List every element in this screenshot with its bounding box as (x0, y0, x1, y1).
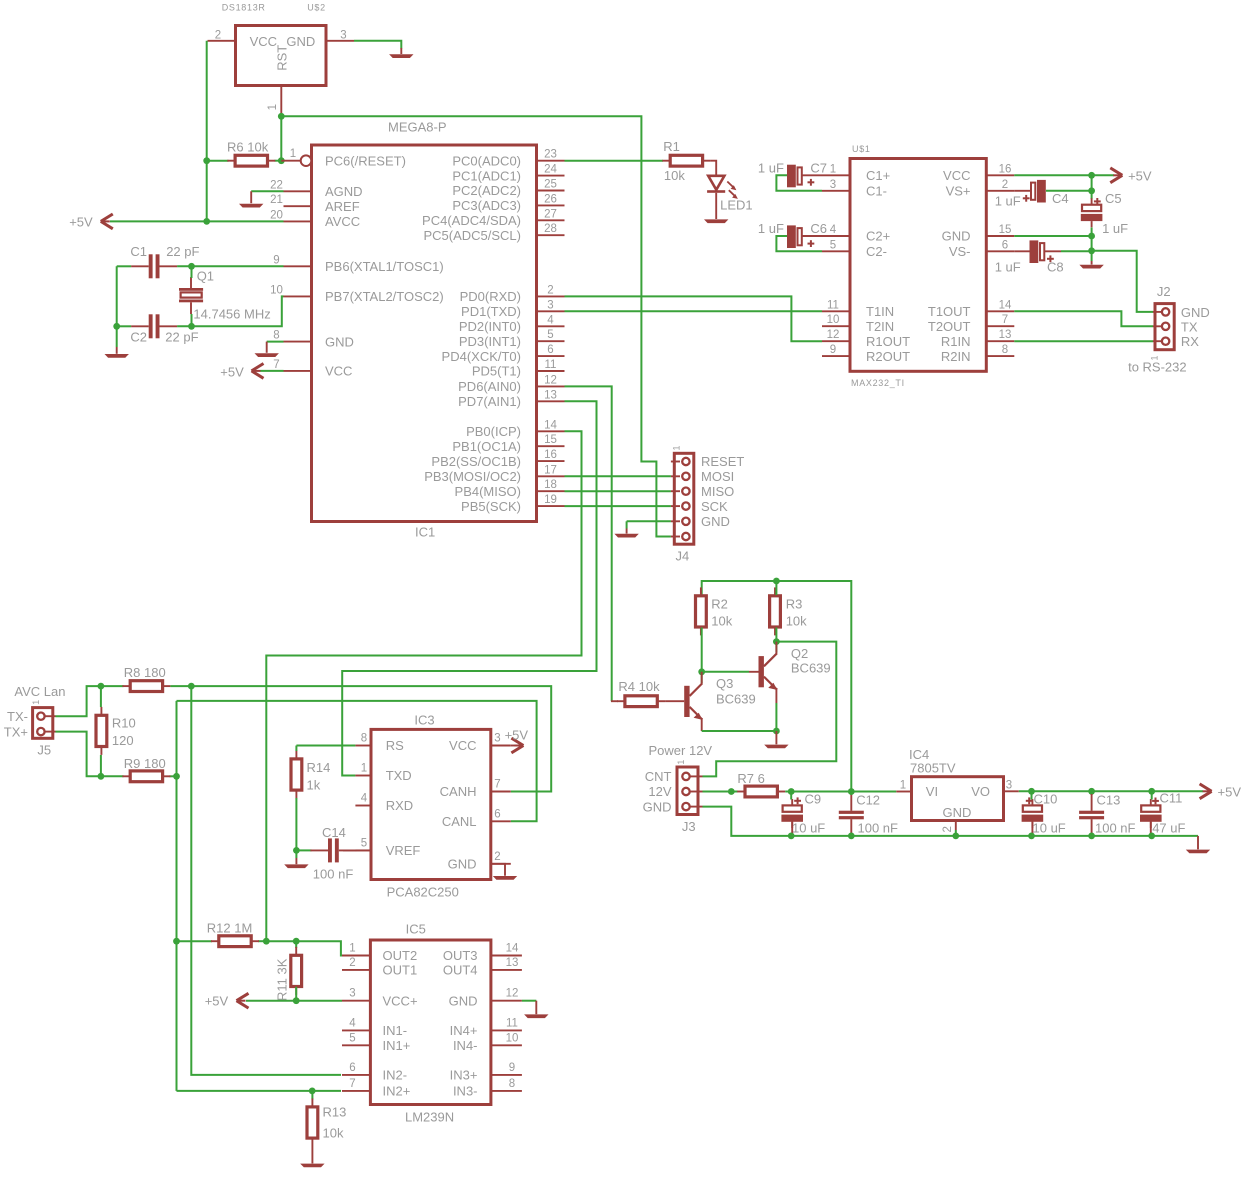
pin 3 of U$2 (326, 40, 354, 42)
svg-text:4: 4 (830, 224, 837, 236)
wire R12 left (177, 940, 213, 942)
wire R9 right (170, 775, 177, 777)
svg-text:GND: GND (701, 514, 730, 529)
IC1 right pin 2 PD0(RXD) (537, 295, 565, 297)
svg-text:R14: R14 (307, 760, 331, 775)
J4 pin 6 (671, 536, 680, 538)
wire IC5 GND pin12 to ground (522, 1000, 536, 1002)
node C13 bottom (1088, 833, 1095, 840)
svg-text:PD1(TXD): PD1(TXD) (461, 304, 521, 319)
IC5 left pin 5 IN1+ (342, 1044, 370, 1046)
svg-text:11: 11 (827, 299, 839, 311)
svg-text:1 uF: 1 uF (1102, 221, 1128, 236)
ground at IC3 (493, 876, 517, 880)
svg-text:15: 15 (999, 224, 1012, 236)
svg-text:24: 24 (544, 164, 557, 176)
svg-text:VCC: VCC (325, 364, 352, 379)
svg-text:2: 2 (547, 284, 553, 296)
IC5 right pin 12 GND (491, 1000, 522, 1002)
svg-text:RST: RST (275, 45, 290, 71)
+5V supply arrow (IC1 VCC) (252, 364, 264, 379)
svg-text:10: 10 (506, 1032, 519, 1044)
IC1 right pin 27 PC4(ADC4/SDA) (537, 219, 565, 221)
svg-text:7: 7 (1002, 314, 1008, 326)
ground at IC5 (524, 1014, 548, 1018)
svg-text:PB4(MISO): PB4(MISO) (455, 484, 521, 499)
U$1 right pin 2 VS+ (986, 190, 1014, 192)
svg-text:VCC: VCC (250, 34, 277, 49)
svg-text:2: 2 (942, 826, 954, 832)
wire C12 leads (850, 792, 852, 796)
svg-text:PC2(ADC2): PC2(ADC2) (452, 183, 521, 198)
svg-text:4: 4 (547, 314, 554, 326)
svg-text:MOSI: MOSI (701, 469, 734, 484)
svg-text:VCC: VCC (449, 738, 476, 753)
svg-text:13: 13 (544, 389, 557, 401)
svg-text:T1IN: T1IN (866, 304, 894, 319)
svg-text:AGND: AGND (325, 184, 363, 199)
svg-text:18: 18 (544, 479, 557, 491)
svg-text:16: 16 (999, 163, 1012, 175)
U$1 left pin 3 C1- (822, 190, 850, 192)
IC1 left pin 21 AREF (284, 205, 312, 207)
J2 pin RX (1153, 340, 1162, 342)
RS-232 driver U$1 MAX232_TI (850, 159, 986, 372)
svg-text:10k: 10k (786, 614, 807, 629)
svg-text:12: 12 (827, 329, 840, 341)
svg-text:+5V: +5V (1218, 784, 1242, 799)
node C11 top (1148, 788, 1155, 795)
resistor R4 (617, 696, 665, 707)
IC1 right pin 17 PB3(MOSI/OC2) (537, 475, 565, 477)
wire PC0 to R1 (565, 160, 664, 162)
svg-text:OUT1: OUT1 (383, 963, 418, 978)
svg-text:IN2+: IN2+ (383, 1084, 411, 1099)
svg-text:VO: VO (971, 784, 990, 799)
svg-text:R10: R10 (112, 716, 136, 731)
node C13 top (1088, 788, 1095, 795)
resistor R14 (291, 751, 302, 799)
IC1 right pin 3 PD1(TXD) (537, 310, 565, 312)
voltage regulator IC4 7805TV (912, 777, 1004, 821)
svg-text:C4: C4 (1052, 191, 1069, 206)
svg-text:1 uF: 1 uF (995, 260, 1021, 275)
svg-text:R1: R1 (663, 139, 680, 154)
svg-text:20: 20 (270, 209, 283, 221)
svg-text:25: 25 (544, 179, 557, 191)
ground at crystal caps (105, 354, 129, 358)
svg-text:1: 1 (672, 445, 682, 450)
wire R11 bottom to +5V / VCC+ (295, 987, 297, 1001)
node C12 bottom (848, 833, 855, 840)
wire C13 top (1091, 791, 1093, 795)
IC3 right pin 6 CANL (491, 820, 511, 822)
svg-text:1: 1 (676, 760, 686, 765)
svg-text:+5V: +5V (505, 727, 529, 742)
resistor R1 (662, 155, 710, 166)
wire R14 top lead (295, 746, 297, 752)
node TX- R8 R10 (98, 683, 105, 690)
svg-text:R2: R2 (711, 596, 728, 611)
svg-text:5: 5 (547, 329, 553, 341)
wire LED1 cathode to ground (715, 193, 717, 219)
svg-text:19: 19 (544, 494, 557, 506)
wire R10 top (100, 686, 102, 707)
wire T1OUT to J2 TX (1014, 311, 1153, 326)
svg-text:28: 28 (544, 223, 557, 235)
node C9 bottom (788, 833, 795, 840)
U$1 left pin 12 R1OUT (822, 340, 850, 342)
J4 pin MISO (671, 490, 680, 492)
svg-text:T1OUT: T1OUT (928, 304, 971, 319)
svg-text:C8: C8 (1047, 260, 1064, 275)
svg-text:AREF: AREF (325, 199, 360, 214)
wire IC3 GND pin to ground (491, 864, 505, 876)
svg-text:BC639: BC639 (791, 660, 831, 675)
J3 pin CNT (690, 775, 703, 777)
svg-text:2: 2 (1002, 179, 1008, 191)
svg-text:13: 13 (506, 957, 519, 969)
microcontroller IC1 MEGA8-P (312, 145, 537, 522)
svg-text:R8 180: R8 180 (124, 665, 166, 680)
wire C5 bottom to GND pin15 row (1091, 228, 1093, 237)
svg-text:PC0(ADC0): PC0(ADC0) (452, 153, 521, 168)
svg-text:CNT: CNT (645, 769, 672, 784)
svg-text:IC3: IC3 (414, 712, 434, 727)
wire CANL column down to R12 and IN2+ (176, 701, 178, 1091)
U$1 left pin 9 R2OUT (822, 355, 850, 357)
svg-text:R6 10k: R6 10k (227, 139, 269, 154)
svg-text:23: 23 (544, 149, 557, 161)
wire R1 to LED1 (710, 161, 716, 176)
svg-text:C5: C5 (1105, 191, 1122, 206)
wire R2 bottom to Q3 collector and Q2 base (701, 628, 703, 684)
svg-text:3: 3 (830, 179, 836, 191)
svg-text:14: 14 (999, 299, 1012, 311)
node R3 top (773, 578, 780, 585)
svg-text:14: 14 (544, 419, 557, 431)
capacitor C5 1uF (1081, 198, 1103, 227)
J3 pin 12V (690, 791, 703, 793)
svg-text:Q3: Q3 (716, 676, 733, 691)
IC1 left pin 22 AGND (284, 190, 312, 192)
capacitor C8 1uF (1030, 240, 1045, 263)
U$1 left pin 11 T1IN (822, 310, 850, 312)
wire crystal caps ground leg (116, 266, 118, 347)
svg-text:C13: C13 (1097, 792, 1121, 807)
ground at R13 (300, 1164, 324, 1168)
resistor R7 (737, 786, 785, 797)
wire 12V rail to R2 R3 tops (702, 581, 852, 792)
svg-text:RS: RS (386, 738, 404, 753)
svg-text:R1IN: R1IN (941, 334, 971, 349)
svg-text:LM239N: LM239N (405, 1110, 454, 1125)
capacitor C10 10uF (1022, 799, 1044, 828)
IC5 right pin 8 IN3- (491, 1090, 522, 1092)
svg-text:5: 5 (830, 239, 836, 251)
svg-text:2: 2 (215, 30, 221, 42)
svg-text:C11: C11 (1160, 790, 1183, 805)
svg-text:R3: R3 (786, 596, 803, 611)
resistor R11 (291, 947, 302, 995)
node R6 left junction (203, 157, 210, 164)
svg-text:1 uF: 1 uF (758, 160, 784, 175)
svg-text:3: 3 (1006, 780, 1012, 792)
svg-text:14.7456 MHz: 14.7456 MHz (193, 306, 270, 321)
svg-text:PC3(ADC3): PC3(ADC3) (452, 198, 521, 213)
IC3 left pin 1 TXD (355, 775, 371, 777)
node +5V MAX232 (1088, 172, 1095, 179)
svg-text:TX-: TX- (7, 709, 28, 724)
svg-text:T2IN: T2IN (866, 319, 894, 334)
crystal Q1 14.7456 MHz (179, 277, 203, 314)
pin 2 of U$2 (208, 40, 236, 42)
svg-text:6: 6 (349, 1062, 355, 1074)
node R12 left (173, 938, 180, 945)
svg-text:PB7(XTAL2/TOSC2): PB7(XTAL2/TOSC2) (325, 289, 444, 304)
svg-text:C10: C10 (1034, 791, 1058, 806)
node Q2 collector (773, 638, 780, 645)
IC5 right pin 10 IN4- (491, 1044, 522, 1046)
wire XTAL2 net (117, 325, 131, 327)
svg-text:GND: GND (448, 857, 477, 872)
svg-text:4: 4 (349, 1017, 356, 1029)
wire PB5 SCK to J4 (565, 505, 671, 507)
node C10 bottom (1028, 833, 1035, 840)
svg-text:U$2: U$2 (307, 3, 326, 13)
svg-text:PB2(SS/OC1B): PB2(SS/OC1B) (431, 454, 521, 469)
svg-text:OUT4: OUT4 (443, 963, 478, 978)
capacitor C1 22pF (131, 254, 177, 278)
capacitor C4 lead from VS+ (1014, 190, 1030, 192)
svg-text:VCC+: VCC+ (383, 993, 418, 1008)
svg-text:R4 10k: R4 10k (618, 679, 660, 694)
svg-text:6: 6 (547, 344, 553, 356)
IC4 pin 3 VO (1004, 790, 1019, 792)
svg-text:8: 8 (273, 330, 279, 342)
svg-text:IC5: IC5 (406, 921, 426, 936)
IC1 right pin 18 PB4(MISO) (537, 490, 565, 492)
svg-text:R2OUT: R2OUT (866, 349, 910, 364)
U$1 right pin 6 VS- (986, 250, 1014, 252)
+5V supply arrow (AVCC) (101, 214, 113, 229)
svg-text:MEGA8-P: MEGA8-P (388, 120, 447, 135)
connector J4 (674, 453, 694, 544)
IC1 right pin 19 PB5(SCK) (537, 505, 565, 507)
wire R13 bottom to ground (311, 1147, 313, 1164)
comparator IC5 LM239N (370, 940, 491, 1105)
node +5V AVCC junction (203, 218, 210, 225)
J4 pin SCK (671, 505, 680, 507)
svg-text:AVC Lan: AVC Lan (14, 684, 65, 699)
svg-text:C1+: C1+ (866, 168, 890, 183)
+5V supply arrow (MAX232) (1110, 168, 1122, 183)
wire PD7 to IC3 TXD (342, 401, 596, 775)
U$1 right pin 15 GND (986, 235, 1014, 237)
wire +5V to IC5 VCC+ (246, 1000, 342, 1002)
IC1 right pin 28 PC5(ADC5/SCL) (537, 234, 565, 236)
svg-text:6: 6 (1002, 239, 1008, 251)
IC5 right pin 13 OUT4 (491, 969, 522, 971)
wire R10 bottom (100, 755, 102, 776)
svg-text:9: 9 (830, 344, 836, 356)
capacitor C11 47uF (1140, 799, 1162, 828)
node C14 (293, 847, 300, 854)
wire GND pin15 (1014, 235, 1091, 237)
svg-text:PD4(XCK/T0): PD4(XCK/T0) (442, 349, 521, 364)
node R6 right / PC6 junction (278, 157, 285, 164)
node TX+ R9 R10 (98, 773, 105, 780)
svg-text:3: 3 (340, 30, 346, 42)
svg-text:MISO: MISO (701, 484, 734, 499)
svg-text:12: 12 (544, 374, 557, 386)
svg-text:120: 120 (112, 733, 134, 748)
svg-text:R12 1M: R12 1M (207, 920, 253, 935)
svg-text:100 nF: 100 nF (858, 820, 899, 835)
svg-text:PD5(T1): PD5(T1) (472, 364, 521, 379)
wire TX- to R8/R10 node (56, 686, 101, 716)
svg-text:14: 14 (506, 943, 519, 955)
svg-text:PD2(INT0): PD2(INT0) (459, 319, 521, 334)
svg-text:1: 1 (830, 163, 836, 175)
svg-text:IN1-: IN1- (383, 1023, 408, 1038)
wire rail end to ground (1197, 836, 1199, 849)
wire PB4 MISO to J4 (565, 490, 671, 492)
IC1 right pin 4 PD2(INT0) (537, 325, 565, 327)
svg-text:TX+: TX+ (4, 724, 28, 739)
wire Q2 base (702, 671, 749, 673)
capacitor C12 100nF (839, 794, 864, 836)
capacitor C4 1uF (1031, 180, 1046, 203)
svg-text:LED1: LED1 (720, 197, 753, 212)
wire emitters to ground (702, 730, 777, 732)
svg-text:R7 6: R7 6 (737, 771, 764, 786)
wire C11 leads (1151, 791, 1153, 799)
wire C8 to ground node (1044, 250, 1062, 252)
IC1 left pin 7 VCC (284, 370, 312, 372)
node GND pin15 (1088, 233, 1095, 240)
IC1 right pin 6 PD4(XCK/T0) (537, 355, 565, 357)
svg-text:Power 12V: Power 12V (649, 743, 713, 758)
svg-text:GND: GND (1181, 305, 1210, 320)
IC5 left pin 2 OUT1 (342, 969, 370, 971)
IC1 left pin 8 GND (284, 341, 312, 343)
IC4 pin 2 GND (955, 821, 957, 831)
svg-text:PC4(ADC4/SDA): PC4(ADC4/SDA) (422, 213, 521, 228)
svg-text:MAX232_TI: MAX232_TI (851, 378, 905, 388)
svg-text:5: 5 (361, 837, 367, 849)
svg-text:BC639: BC639 (716, 691, 756, 706)
IC1 right pin 24 PC1(ADC1) (537, 175, 565, 177)
IC1 left pin 9 PB6(XTAL1/TOSC1) (284, 265, 312, 267)
svg-text:CANH: CANH (440, 784, 477, 799)
resistor R6 (227, 155, 275, 166)
IC3 right pin 7 CANH (491, 791, 511, 793)
U$1 right pin 14 T1OUT (986, 310, 1014, 312)
wire PB3 MOSI to J4 (565, 475, 671, 477)
U$1 right pin 8 R2IN (986, 355, 1014, 357)
svg-text:11: 11 (506, 1017, 518, 1029)
resistor R10 (96, 707, 107, 755)
svg-text:C1: C1 (130, 244, 147, 259)
ground at IC1 GND (255, 353, 279, 357)
ground at AGND (251, 190, 283, 192)
svg-text:IN2-: IN2- (383, 1068, 408, 1083)
svg-text:PB3(MOSI/OC2): PB3(MOSI/OC2) (424, 469, 521, 484)
wire IC4 GND to ground rail (955, 830, 957, 836)
wire PD0 to R1OUT (565, 296, 823, 341)
reset IC U$2 DS1813R (236, 26, 327, 86)
capacitor C8 lead from VS- (1014, 250, 1031, 252)
svg-text:26: 26 (544, 193, 557, 205)
svg-text:+5V: +5V (69, 215, 93, 230)
capacitor C6 1uF (787, 225, 802, 248)
svg-text:3: 3 (349, 988, 355, 1000)
wire ground rail (703, 807, 1199, 836)
wire R3 bottom to Q2 collector to CNT (775, 628, 777, 653)
svg-text:10k: 10k (323, 1126, 344, 1141)
ground at J4 (614, 534, 638, 538)
IC1 right pin 13 PD7(AIN1) (537, 400, 565, 402)
ground at C14 (284, 864, 308, 868)
svg-text:RXD: RXD (386, 798, 413, 813)
svg-text:PD0(RXD): PD0(RXD) (460, 289, 521, 304)
node R11 bottom (293, 997, 300, 1004)
svg-text:2: 2 (494, 851, 500, 863)
wire TX+ to R9/R10 node (56, 732, 101, 777)
wire IN2+ row (177, 1090, 342, 1092)
wire J4 GND to ground (627, 520, 671, 522)
wire R8 right / CANH net (170, 686, 551, 791)
svg-text:11: 11 (545, 359, 557, 371)
wire R6 left (207, 160, 229, 162)
capacitor C7 1uF (787, 165, 802, 188)
node C1 C2 ground junction (113, 323, 120, 330)
svg-text:+5V: +5V (220, 364, 244, 379)
ground at LED1 (704, 219, 728, 223)
svg-text:TX: TX (1181, 319, 1198, 334)
J5 pin TX- (45, 715, 56, 717)
IC5 left pin 3 VCC+ (342, 1000, 370, 1002)
IC1 left pin 10 PB7(XTAL2/TOSC2) (284, 295, 312, 297)
svg-text:2: 2 (349, 957, 355, 969)
svg-text:R13: R13 (323, 1104, 347, 1119)
wire +5V to AVCC with arrow (110, 220, 284, 222)
node XTAL2 (188, 323, 195, 330)
wire VO +5V rail (1019, 790, 1203, 792)
node C8 ground (1088, 247, 1095, 254)
svg-text:VCC: VCC (943, 168, 970, 183)
svg-text:GND: GND (643, 799, 672, 814)
J2 pin TX (1153, 325, 1162, 327)
svg-text:3: 3 (547, 299, 553, 311)
svg-text:8: 8 (509, 1078, 515, 1090)
svg-text:AVCC: AVCC (325, 214, 360, 229)
svg-text:PC5(ADC5/SCL): PC5(ADC5/SCL) (423, 228, 521, 243)
node R13 top (309, 1088, 316, 1095)
wire reset net: U$2 pin1 down to junction (280, 114, 282, 161)
svg-text:R11 3K: R11 3K (275, 958, 290, 1001)
IC5 right pin 14 OUT3 (491, 955, 522, 957)
node R9 CANL (173, 773, 180, 780)
node emitters (773, 728, 780, 735)
svg-text:13: 13 (999, 329, 1012, 341)
svg-text:27: 27 (544, 208, 557, 220)
svg-text:C2: C2 (130, 330, 147, 345)
IC3 left pin 4 RXD (355, 805, 371, 807)
svg-text:6: 6 (494, 808, 500, 820)
wire RS to R14 (296, 745, 355, 747)
